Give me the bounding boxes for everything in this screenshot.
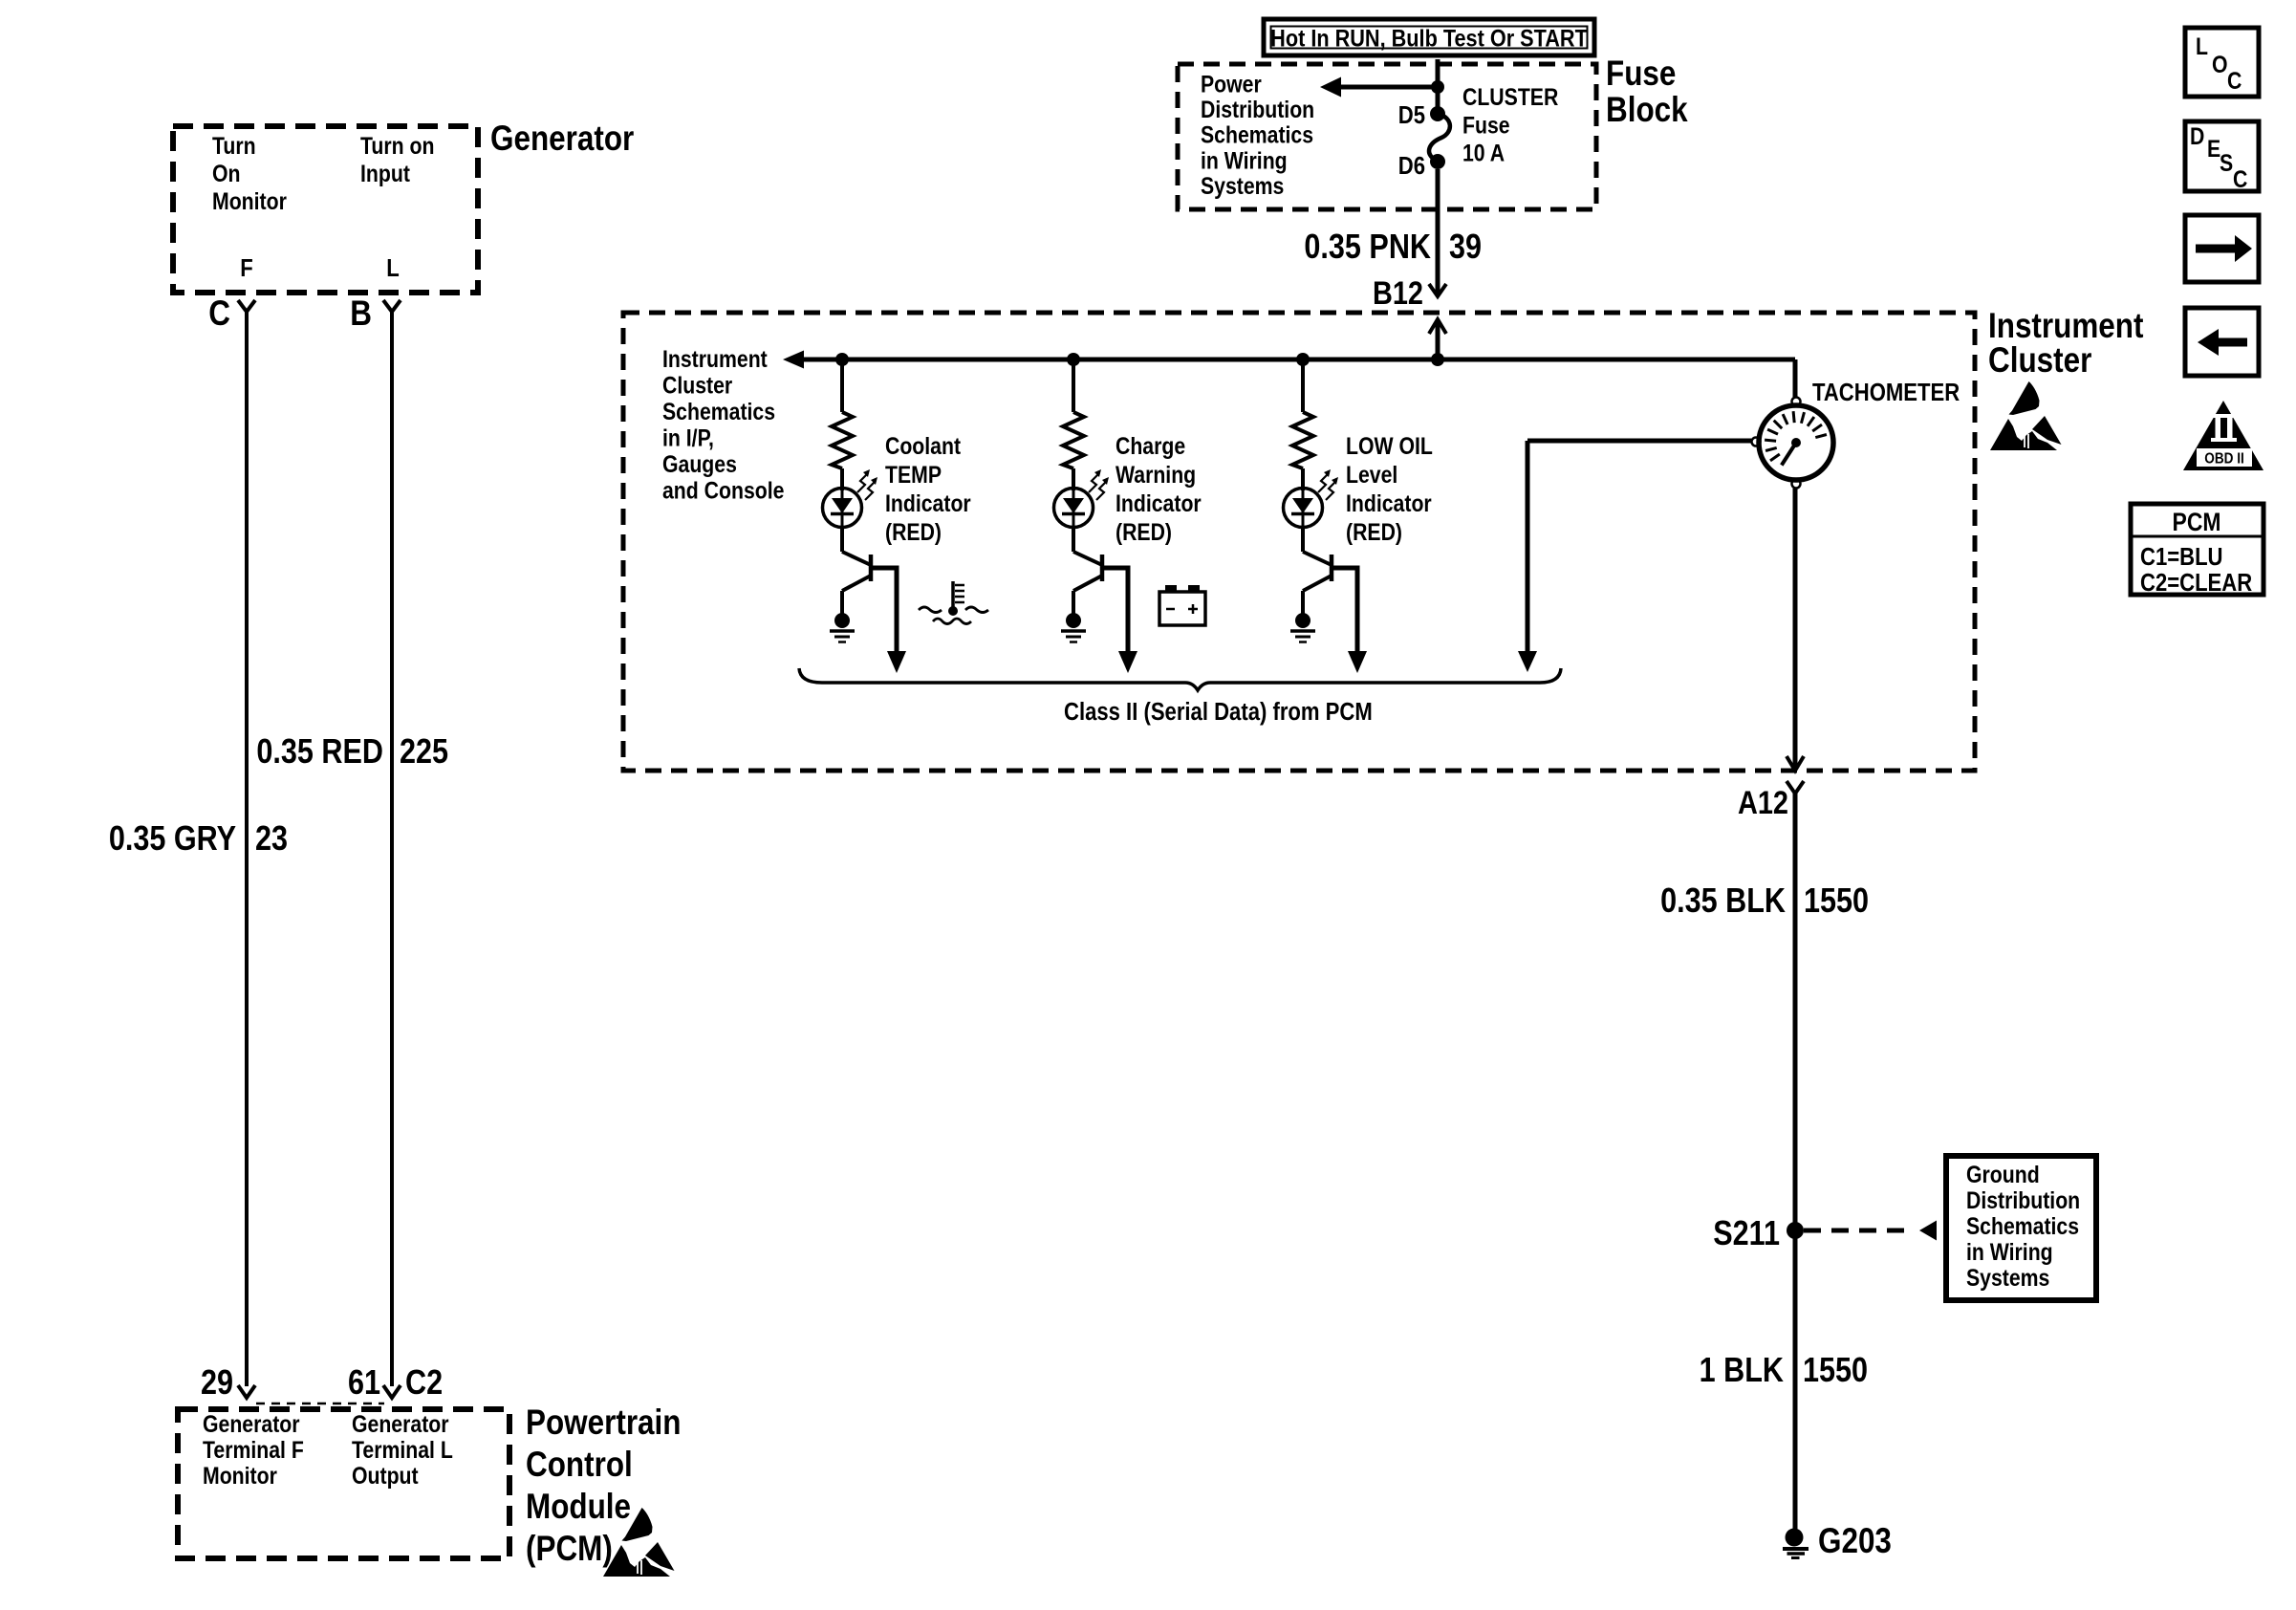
svg-text:and Console: and Console	[662, 477, 785, 504]
svg-text:Turn on: Turn on	[360, 132, 434, 159]
svg-text:Schematics: Schematics	[1966, 1212, 2079, 1239]
node junction on bus at x=1123	[1067, 353, 1080, 366]
instrument cluster dashed box	[623, 313, 1975, 771]
svg-text:Fuse: Fuse	[1462, 112, 1510, 139]
wire resistor to LED D3 LOW OIL Level	[1301, 468, 1305, 490]
svg-text:Charge: Charge	[1116, 432, 1185, 459]
wire arrow to Power Distribution Schematics (left)	[1320, 77, 1438, 98]
node junction on bus at x=881	[835, 353, 849, 366]
generator annotation "Turn on Input"	[360, 132, 434, 186]
svg-text:61: 61	[348, 1364, 380, 1403]
svg-text:C: C	[208, 294, 230, 334]
chevron arrow at cluster box exit (A12)	[1787, 756, 1804, 771]
svg-text:Powertrain: Powertrain	[526, 1403, 682, 1443]
ground box annotation "Ground Distribution Schematics in Wiring Systems"	[1966, 1161, 2080, 1291]
svg-text:G203: G203	[1818, 1522, 1892, 1561]
power label box "Hot In RUN, Bulb Test Or START"	[1264, 19, 1594, 55]
svg-text:Distribution: Distribution	[1966, 1186, 2080, 1213]
connector label C2	[405, 1364, 443, 1403]
tachometer gauge M1	[1752, 398, 1834, 489]
svg-text:Control: Control	[526, 1446, 633, 1485]
ground at emitter of Q1	[830, 613, 855, 642]
splice S211	[1713, 1215, 1804, 1253]
wire resistor to LED D1 Coolant TEMP	[840, 468, 844, 490]
svg-text:C2=CLEAR: C2=CLEAR	[2140, 569, 2252, 597]
svg-text:Turn: Turn	[212, 132, 256, 159]
svg-text:0.35 BLK: 0.35 BLK	[1660, 882, 1786, 921]
battery icon (charge warning)	[1159, 585, 1205, 625]
wire label 0.35 PNK 39	[1304, 228, 1482, 267]
svg-text:Cluster: Cluster	[662, 372, 732, 399]
wire LED to transistor Q3	[1301, 526, 1305, 552]
LED indicator D3 LOW OIL Level	[1284, 469, 1339, 528]
wire label 1 BLK 1550	[1700, 1352, 1868, 1390]
svg-text:D: D	[2190, 122, 2204, 149]
wire label 0.35 BLK 1550	[1660, 882, 1869, 921]
svg-text:Monitor: Monitor	[203, 1462, 277, 1489]
LED indicator D2 Charge Warning	[1054, 469, 1110, 528]
connector B12 (Y into instrument cluster)	[1373, 274, 1446, 312]
svg-text:OBD II: OBD II	[2204, 451, 2244, 468]
svg-text:C: C	[2227, 67, 2242, 94]
ground G203	[1783, 1522, 1892, 1561]
connector C (generator terminal F)	[208, 294, 255, 334]
svg-text:PCM: PCM	[2173, 508, 2221, 536]
LED indicator D1 Coolant TEMP	[823, 469, 878, 528]
svg-text:Indicator: Indicator	[1346, 490, 1432, 516]
connector face dashed line C2	[256, 1403, 384, 1405]
transistor Q1	[842, 552, 906, 673]
svg-text:in Wiring: in Wiring	[1201, 147, 1288, 174]
svg-text:23: 23	[255, 820, 288, 859]
svg-text:D6: D6	[1398, 152, 1425, 180]
wire LED to transistor Q2	[1072, 526, 1075, 552]
svg-text:Class II (Serial Data) from PC: Class II (Serial Data) from PCM	[1064, 698, 1373, 726]
svg-text:Terminal F: Terminal F	[203, 1436, 304, 1463]
ground distribution reference box	[1946, 1156, 2096, 1300]
svg-text:Warning: Warning	[1116, 461, 1196, 488]
svg-text:225: 225	[400, 733, 448, 772]
back arrow legend box	[2185, 308, 2259, 376]
svg-text:L: L	[2196, 33, 2208, 59]
svg-text:in I/P,: in I/P,	[662, 424, 714, 451]
svg-text:Ground: Ground	[1966, 1161, 2040, 1187]
svg-text:0.35 PNK: 0.35 PNK	[1304, 228, 1431, 267]
wire bus to resistor R2	[1072, 359, 1075, 412]
node junction at fuse feed	[1431, 80, 1444, 94]
svg-text:On: On	[212, 160, 240, 186]
svg-text:C1=BLU: C1=BLU	[2140, 543, 2223, 571]
wire bus to tachometer top terminal	[1793, 359, 1798, 398]
svg-text:Module: Module	[526, 1488, 631, 1527]
wire bus to resistor R3	[1301, 359, 1305, 412]
svg-text:Indicator: Indicator	[885, 490, 971, 516]
svg-text:Coolant: Coolant	[885, 432, 961, 459]
resistor R2	[1063, 412, 1084, 468]
svg-text:1 BLK: 1 BLK	[1700, 1352, 1784, 1390]
connector Y at PCM pin 29	[201, 1364, 255, 1403]
svg-text:Fuse: Fuse	[1606, 54, 1676, 94]
svg-text:S211: S211	[1713, 1215, 1780, 1253]
svg-text:Monitor: Monitor	[212, 187, 287, 214]
node junction bus at B12 wire	[1431, 353, 1444, 366]
fuse value label "CLUSTER Fuse 10 A"	[1462, 83, 1559, 166]
wire from Hot In RUN feed into fuse block	[1436, 59, 1440, 114]
svg-text:Level: Level	[1346, 461, 1397, 488]
svg-text:C2: C2	[405, 1364, 443, 1403]
svg-text:E: E	[2207, 135, 2220, 162]
svg-text:B12: B12	[1373, 274, 1423, 312]
wire LED to transistor Q1	[840, 526, 844, 552]
svg-text:TACHOMETER: TACHOMETER	[1812, 379, 1960, 406]
svg-text:Block: Block	[1606, 91, 1688, 130]
svg-text:D5: D5	[1398, 101, 1425, 129]
chevron arrow at cluster box entry (B12)	[1429, 319, 1446, 359]
svg-text:Schematics: Schematics	[1201, 121, 1313, 148]
pin F of generator	[240, 254, 252, 282]
svg-text:Instrument: Instrument	[1988, 307, 2144, 346]
arrow down on tach input to class II brace	[1518, 651, 1537, 672]
svg-text:1550: 1550	[1803, 1352, 1868, 1390]
svg-text:F: F	[240, 254, 252, 282]
wire tachometer signal input (from PCM serial data)	[1527, 441, 1751, 652]
svg-text:Generator: Generator	[490, 120, 634, 159]
indicator label "LOW OIL Level Indicator (RED)"	[1346, 432, 1433, 545]
svg-text:LOW OIL: LOW OIL	[1346, 432, 1433, 459]
wire B to PCM pin 61 (0.35 RED 225)	[390, 312, 394, 1386]
connector Y at PCM pin 61	[348, 1364, 401, 1403]
svg-text:CLUSTER: CLUSTER	[1462, 83, 1559, 110]
svg-text:Generator: Generator	[203, 1410, 300, 1437]
indicator label "Coolant TEMP Indicator (RED)"	[885, 432, 971, 545]
PCM annotation "Generator Terminal F Monitor"	[203, 1410, 304, 1489]
ESD sensitivity symbol (instrument cluster)	[1990, 381, 2062, 450]
fuse block dashed box	[1178, 64, 1596, 209]
terminal D6 of CLUSTER fuse	[1398, 152, 1445, 180]
svg-text:TEMP: TEMP	[885, 461, 942, 488]
indicator label "Charge Warning Indicator (RED)"	[1116, 432, 1202, 545]
svg-text:1550: 1550	[1804, 882, 1869, 921]
svg-text:B: B	[350, 294, 372, 334]
PCM label "Powertrain Control Module (PCM)"	[526, 1403, 682, 1569]
wire D6 to connector B12 (0.35 PNK 39)	[1436, 169, 1440, 296]
instrument cluster label "Instrument Cluster"	[1988, 307, 2144, 381]
wire tachometer bottom to A12	[1793, 489, 1798, 771]
cluster annotation "Instrument Cluster Schematics in I/P, Gauges and Console"	[662, 345, 785, 504]
terminal D5 of CLUSTER fuse	[1398, 101, 1445, 129]
fuse block annotation "Power Distribution Schematics in Wiring Systems"	[1201, 71, 1314, 199]
svg-text:Distribution: Distribution	[1201, 96, 1314, 122]
svg-text:C: C	[2233, 165, 2248, 192]
transistor Q2	[1073, 552, 1137, 673]
net label "Class II (Serial Data) from PCM"	[1064, 698, 1373, 726]
forward arrow legend box	[2185, 215, 2259, 282]
svg-text:Input: Input	[360, 160, 410, 186]
svg-text:0.35 RED: 0.35 RED	[256, 733, 383, 772]
svg-text:39: 39	[1449, 228, 1482, 267]
svg-text:O: O	[2212, 51, 2228, 77]
svg-text:29: 29	[201, 1364, 233, 1403]
brace for Class II serial data from PCM	[799, 668, 1561, 690]
generator label "Generator"	[490, 120, 634, 159]
wire C to PCM pin 29 (0.35 GRY 23)	[245, 312, 249, 1386]
svg-text:10 A: 10 A	[1462, 140, 1505, 166]
svg-text:Schematics: Schematics	[662, 398, 775, 424]
svg-text:(PCM): (PCM)	[526, 1530, 613, 1569]
wire label 0.35 RED 225	[256, 733, 448, 772]
svg-text:Output: Output	[352, 1462, 419, 1489]
fuse F1 CLUSTER Fuse 10 A (element)	[1429, 114, 1450, 162]
resistor R3	[1292, 412, 1313, 468]
svg-text:Gauges: Gauges	[662, 450, 737, 477]
wire resistor to LED D2 Charge Warning	[1072, 468, 1075, 490]
coolant temperature icon	[919, 581, 988, 624]
svg-text:Hot In RUN, Bulb Test Or START: Hot In RUN, Bulb Test Or START	[1270, 25, 1588, 52]
pin L of generator	[386, 254, 399, 282]
generator dashed box	[173, 126, 478, 293]
svg-text:Power: Power	[1201, 71, 1262, 98]
cluster feed bus wire	[804, 358, 1795, 362]
svg-text:Generator: Generator	[352, 1410, 449, 1437]
node junction on bus at x=1363	[1296, 353, 1310, 366]
svg-text:Cluster: Cluster	[1988, 341, 2091, 381]
DESC legend box	[2185, 121, 2259, 192]
transistor Q3	[1303, 552, 1367, 673]
svg-text:L: L	[386, 254, 399, 282]
svg-text:Indicator: Indicator	[1116, 490, 1202, 516]
connector A12 (Y below cluster)	[1738, 781, 1804, 1529]
PCM annotation "Generator Terminal L Output"	[352, 1410, 453, 1489]
connector B (generator terminal L)	[350, 294, 401, 334]
PCM connector legend table	[2131, 504, 2264, 597]
svg-text:Terminal L: Terminal L	[352, 1436, 453, 1463]
fuse block label "Fuse Block"	[1606, 54, 1688, 130]
svg-text:0.35 GRY: 0.35 GRY	[109, 820, 236, 859]
svg-text:(RED): (RED)	[1346, 518, 1402, 545]
PCM dashed box	[178, 1409, 509, 1558]
ground at emitter of Q3	[1290, 613, 1315, 642]
wire label 0.35 GRY 23	[109, 820, 288, 859]
tachometer label	[1812, 379, 1960, 406]
resistor R1	[832, 412, 853, 468]
wire bus to resistor R1	[840, 359, 844, 412]
svg-text:Systems: Systems	[1966, 1264, 2049, 1291]
svg-text:S: S	[2220, 149, 2233, 176]
svg-text:(RED): (RED)	[885, 518, 942, 545]
ESD sensitivity symbol (PCM)	[603, 1508, 675, 1577]
svg-text:in Wiring: in Wiring	[1966, 1238, 2053, 1265]
OBD II symbol	[2183, 401, 2264, 470]
ground at emitter of Q2	[1061, 613, 1086, 642]
svg-text:(RED): (RED)	[1116, 518, 1172, 545]
dashed reference wire from S211 to ground distribution box	[1804, 1221, 1937, 1241]
svg-text:A12: A12	[1738, 784, 1788, 821]
generator annotation "Turn On Monitor"	[212, 132, 287, 214]
svg-text:Systems: Systems	[1201, 172, 1284, 199]
LOC legend box	[2185, 28, 2259, 97]
svg-text:Instrument: Instrument	[662, 345, 768, 372]
bus arrowhead (to cluster schematics)	[783, 351, 804, 369]
